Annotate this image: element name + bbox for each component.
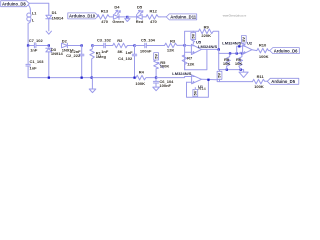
- svg-text:Arduino_D6: Arduino_D6: [274, 48, 298, 53]
- wire to label D11: [160, 16, 166, 18]
- svg-text:1Meg: 1Meg: [96, 54, 107, 59]
- svg-text:12K: 12K: [187, 62, 194, 67]
- svg-text:R13: R13: [101, 8, 109, 13]
- svg-text:R12: R12: [150, 8, 158, 13]
- svg-text:100K: 100K: [135, 81, 145, 86]
- junction dot U5 output: [218, 48, 220, 50]
- svg-text:12K: 12K: [167, 48, 174, 53]
- pot R5 100K (rotated value box): [153, 53, 169, 78]
- op-amp U1: [172, 71, 252, 97]
- svg-text:www.GizmoLab.co.nz: www.GizmoLab.co.nz: [223, 14, 247, 18]
- svg-text:U2: U2: [247, 41, 253, 46]
- svg-text:Arduino_D11: Arduino_D11: [170, 15, 196, 20]
- wire label D10 to R13: [97, 15, 98, 18]
- svg-text:C1_103: C1_103: [30, 59, 45, 64]
- bottom rail: [49, 77, 136, 79]
- resistor R3 12K (series): [165, 38, 185, 52]
- ground below comparator section: [239, 72, 248, 77]
- resistor R4 100K (series in bottom rail): [135, 70, 156, 86]
- label Arduino_D8: [1, 1, 30, 7]
- op-amp U5: [185, 40, 219, 70]
- diode D3 1N914: [46, 46, 64, 78]
- svg-text:10K: 10K: [235, 61, 242, 66]
- svg-text:LM324N/S: LM324N/S: [222, 41, 241, 46]
- node dot at D3: [48, 44, 50, 46]
- diode D2 1N914 (series): [62, 38, 82, 52]
- svg-text:D5: D5: [137, 4, 143, 9]
- svg-text:L1: L1: [32, 11, 37, 16]
- preset (rotated value box) above U2: [241, 36, 246, 46]
- svg-text:R3: R3: [170, 38, 176, 43]
- LED D4 Green: [112, 4, 127, 24]
- svg-text:R11: R11: [257, 74, 265, 79]
- svg-text:R2: R2: [117, 38, 123, 43]
- capacitor C5 100nF (series): [135, 38, 165, 54]
- svg-text:Arduino_D8: Arduino_D8: [2, 1, 26, 6]
- svg-text:D4: D4: [114, 4, 120, 9]
- tilted resistor R8 10K: [223, 52, 231, 71]
- capacitor C1 (on L1 column): [26, 46, 49, 78]
- svg-text:R7: R7: [187, 55, 193, 60]
- svg-text:100nF: 100nF: [140, 49, 152, 54]
- svg-text:100K: 100K: [259, 54, 269, 59]
- svg-text:R9: R9: [204, 25, 210, 30]
- svg-text:R10: R10: [259, 43, 267, 48]
- op-amp U2: [222, 41, 253, 55]
- svg-text:LM324N/S: LM324N/S: [198, 44, 217, 49]
- svg-text:100K: 100K: [254, 84, 264, 89]
- svg-text:R14: R14: [198, 86, 206, 91]
- leader wire from D8 label to L1: [29, 5, 31, 10]
- capacitor C4 1nF: [118, 44, 137, 77]
- junction dot + ground between LEDs: [126, 16, 128, 18]
- label Arduino_D11: [166, 14, 196, 20]
- node dot R1 bottom + ground: [91, 77, 93, 79]
- svg-text:5V: 5V: [241, 37, 246, 42]
- resistor R13 470: [97, 8, 113, 24]
- lower rail of comparator section: [219, 52, 244, 54]
- node dot at C7/L1: [27, 44, 29, 46]
- svg-text:1nF: 1nF: [30, 48, 38, 53]
- resistor R1 1Meg: [90, 44, 107, 77]
- LED D5 Red: [127, 4, 146, 24]
- label Arduino_D6: [270, 48, 300, 54]
- preset R8 (rotated value box) above U5: [191, 31, 196, 44]
- svg-text:R4: R4: [139, 70, 145, 75]
- feedback wire with R9 220K: [185, 25, 219, 50]
- svg-text:D2: D2: [62, 38, 68, 43]
- svg-text:D1: D1: [52, 10, 58, 15]
- junction dot U1 output: [207, 79, 209, 81]
- wire U5 out down to lower rail: [218, 50, 220, 70]
- capacitor C2 2.2nF: [66, 44, 84, 77]
- svg-text:Arduino_D10: Arduino_D10: [69, 14, 96, 19]
- svg-text:1nF: 1nF: [101, 49, 109, 54]
- resistor R10 100K: [252, 43, 270, 60]
- node dot C6/R5: [155, 77, 157, 79]
- svg-text:C7_102: C7_102: [29, 38, 44, 43]
- svg-text:C4_102: C4_102: [118, 56, 133, 61]
- label Arduino_D10: [68, 13, 98, 19]
- svg-text:1nF: 1nF: [30, 66, 38, 71]
- resistor R7 12K: [182, 49, 207, 69]
- node dot D3 bottom: [48, 77, 50, 79]
- capacitor C6 100nF to ground: [153, 78, 174, 91]
- svg-text:470: 470: [150, 19, 157, 24]
- svg-text:5V: 5V: [153, 54, 158, 59]
- svg-text:10K: 10K: [223, 61, 230, 66]
- diode D1 1N914: [46, 10, 64, 31]
- svg-text:Green: Green: [112, 19, 124, 24]
- tilted resistor R6 10K: [235, 52, 243, 71]
- svg-text:C5_104: C5_104: [141, 38, 156, 43]
- wire from D8 label to D1: [29, 3, 49, 15]
- svg-text:Arduino_D5: Arduino_D5: [271, 79, 295, 84]
- svg-text:LM324N/S: LM324N/S: [172, 71, 191, 76]
- preset (rotated value box) right of U1, above R11 wire: [217, 70, 222, 82]
- svg-text:5V: 5V: [191, 33, 196, 38]
- svg-text:470: 470: [101, 19, 108, 24]
- resistor R2 8K (series): [113, 38, 135, 54]
- preset (rotated value box) below U1: [193, 86, 207, 96]
- svg-text:C3_102: C3_102: [97, 38, 112, 43]
- inductor L1: [27, 11, 37, 46]
- resistor R11 100K: [253, 74, 268, 89]
- label Arduino_D5: [267, 78, 299, 84]
- svg-text:1nF: 1nF: [125, 50, 133, 55]
- node dot U5 input: [184, 44, 186, 46]
- svg-text:100nF: 100nF: [159, 83, 171, 88]
- resistor R12 470: [146, 8, 160, 24]
- svg-text:8K: 8K: [118, 49, 123, 54]
- svg-text:L: L: [32, 17, 35, 22]
- svg-text:1N914: 1N914: [52, 15, 65, 20]
- svg-text:220K: 220K: [201, 33, 211, 38]
- capacitor C3 1nF (series): [92, 38, 112, 55]
- svg-text:5V: 5V: [193, 90, 198, 95]
- capacitor C7 1nF: [28, 38, 49, 53]
- svg-text:100K: 100K: [160, 64, 170, 69]
- svg-text:Red: Red: [136, 19, 144, 24]
- svg-text:5V: 5V: [217, 73, 222, 78]
- node dot C2 bottom: [81, 77, 83, 79]
- node dot C4 bottom: [133, 77, 135, 79]
- svg-text:C2_222: C2_222: [66, 53, 81, 58]
- wire bottom rail to U1: [156, 77, 192, 78]
- arrow end below D1: [46, 31, 51, 34]
